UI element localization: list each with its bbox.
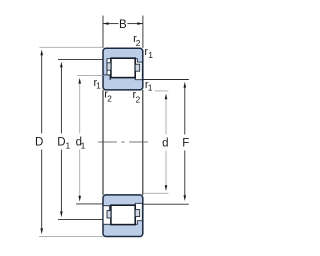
roller (lower) (111, 205, 135, 224)
inner-ring flange bottom line (lower) (104, 205, 111, 207)
d1 extension line bottom (76, 203, 104, 205)
B dimension line left segment (103, 23, 118, 25)
d1 dimension line upper segment (79, 83, 81, 134)
gap left of roller (lower) (104, 206, 111, 224)
gap right of roller with outer-ring prong notch (upper right) (135, 59, 142, 80)
cage bar right (lower) (135, 210, 140, 217)
D1 dimension line lower segment (60, 150, 62, 213)
bearing axis centerline (dash-dot) (98, 141, 117, 143)
B arrow left (103, 22, 109, 25)
bearing rings silhouette (lower cross-section) (103, 195, 143, 237)
bearing side face line right (142, 90, 144, 195)
d1 arrow down (78, 196, 81, 202)
gap between outer-ring flange and roller (upper left) (107, 59, 111, 75)
F arrow down (184, 195, 187, 201)
D dimension line upper segment (41, 54, 43, 134)
d extension line top (155, 90, 168, 92)
d arrow down (165, 185, 168, 191)
inner-ring flange front face (lower) (108, 206, 110, 211)
svg-text:d: d (162, 138, 168, 150)
bearing rings silhouette (upper cross-section) (103, 48, 143, 90)
F extension line bottom (143, 203, 189, 205)
B arrow right (137, 22, 143, 25)
cage bar left (lower) (107, 211, 111, 218)
svg-text:2: 2 (136, 94, 141, 104)
D extension line bottom (39, 235, 103, 237)
gap right of roller with outer-ring prong notch (lower right) (135, 203, 142, 224)
B dimension line right segment (127, 23, 142, 25)
F arrow up (184, 82, 187, 88)
B extension line left (102, 16, 104, 48)
d1 dimension line lower segment (79, 150, 81, 197)
d arrow up (165, 94, 168, 100)
svg-text:B: B (119, 19, 127, 31)
svg-text:1: 1 (81, 141, 86, 151)
F dimension line upper segment (184, 87, 186, 135)
svg-text:2: 2 (136, 38, 141, 48)
svg-text:1: 1 (96, 81, 101, 91)
D arrow up (40, 50, 43, 56)
svg-text:D: D (35, 137, 43, 149)
svg-text:F: F (182, 138, 189, 150)
D dimension line lower segment (41, 150, 43, 230)
D1 extension line top (58, 58, 103, 60)
D arrow down (40, 228, 43, 234)
d dimension line lower segment (165, 151, 167, 187)
svg-text:D: D (57, 137, 65, 149)
D1 dimension line upper segment (60, 66, 62, 134)
B extension line right (142, 16, 144, 48)
svg-text:1: 1 (148, 83, 153, 93)
svg-text:2: 2 (107, 93, 112, 103)
D1 arrow down (60, 211, 63, 217)
d1 arrow up (78, 78, 81, 84)
roller (upper) (111, 58, 135, 77)
F extension line top (143, 79, 189, 81)
D1 extension line bottom (58, 218, 103, 220)
d1 extension line top (77, 75, 103, 77)
bearing side face line left (102, 90, 104, 195)
svg-text:1: 1 (148, 50, 153, 60)
cage bar right (upper) (135, 64, 140, 71)
d extension line bottom (143, 192, 168, 194)
svg-text:1: 1 (66, 141, 71, 151)
d dimension line upper segment (165, 98, 167, 135)
cage bar left (upper) (107, 63, 111, 70)
D1 arrow up (60, 62, 63, 68)
F dimension line lower segment (184, 151, 186, 197)
inner-ring flange contour (upper) (103, 75, 111, 80)
D extension line top (40, 46, 104, 48)
outer raceway line (lower left) (104, 223, 111, 225)
